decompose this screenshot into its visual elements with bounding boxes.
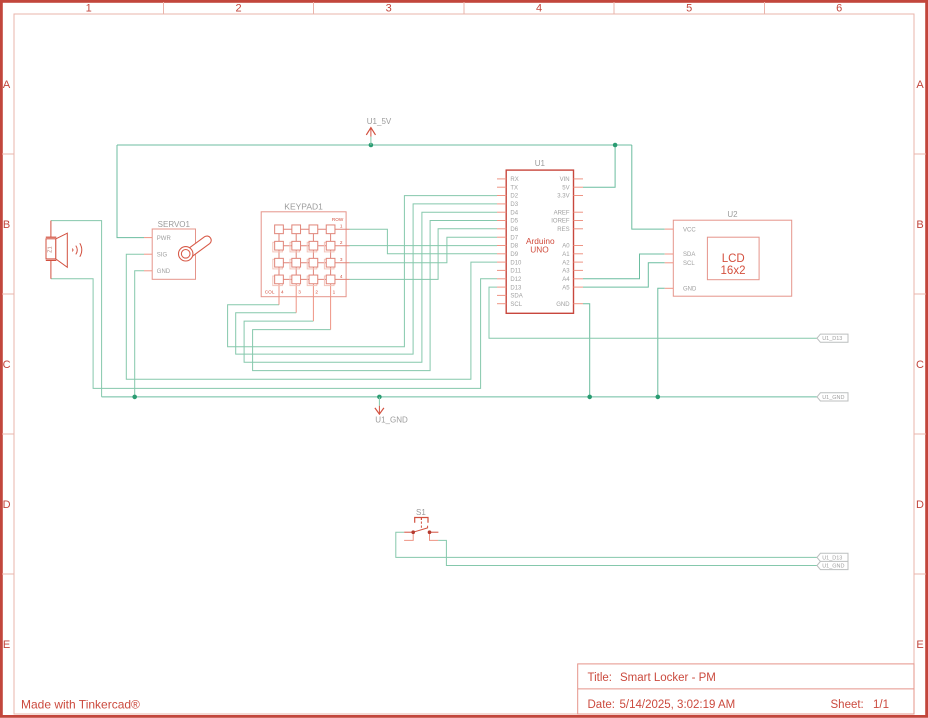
svg-text:2: 2 xyxy=(315,290,318,295)
net flag U1_D13 xyxy=(817,334,848,342)
wire keypad ROW2 to U1 D8 xyxy=(350,245,498,247)
svg-text:D5: D5 xyxy=(510,219,518,225)
wire servo SIG to U1 D10 xyxy=(126,254,497,379)
svg-text:4: 4 xyxy=(340,274,343,279)
svg-text:A: A xyxy=(916,79,924,91)
svg-text:RES: RES xyxy=(557,227,569,233)
svg-text:SCL: SCL xyxy=(510,302,522,308)
svg-text:6: 6 xyxy=(836,2,842,14)
svg-text:IOREF: IOREF xyxy=(551,219,570,225)
svg-text:D13: D13 xyxy=(510,285,522,291)
svg-text:GND: GND xyxy=(157,269,171,275)
wire U2 GND to rail xyxy=(658,288,665,397)
svg-text:GND: GND xyxy=(556,302,570,308)
svg-text:A5: A5 xyxy=(562,285,570,291)
power symbol U1_GND xyxy=(375,397,408,425)
wire keypad ROW1 to U1 D9 xyxy=(350,229,498,254)
svg-text:KEYPAD1: KEYPAD1 xyxy=(284,202,323,212)
title block xyxy=(578,664,914,714)
svg-text:1/1: 1/1 xyxy=(873,699,889,711)
svg-text:U1_GND: U1_GND xyxy=(822,564,844,570)
svg-text:E: E xyxy=(916,639,923,651)
junction dot xyxy=(377,395,382,400)
net flag U1_D13 xyxy=(817,553,848,561)
svg-text:3.3V: 3.3V xyxy=(557,194,569,200)
svg-text:COL: COL xyxy=(265,290,275,295)
svg-text:16x2: 16x2 xyxy=(721,265,746,277)
wire servo GND to rail xyxy=(135,271,144,397)
svg-text:1: 1 xyxy=(333,290,336,295)
svg-text:A0: A0 xyxy=(562,244,570,250)
svg-text:SDA: SDA xyxy=(683,252,695,258)
svg-text:3: 3 xyxy=(386,2,392,14)
svg-text:D3: D3 xyxy=(510,202,518,208)
svg-text:A4: A4 xyxy=(562,277,570,283)
svg-text:U1: U1 xyxy=(535,159,546,168)
svg-text:4: 4 xyxy=(281,290,284,295)
svg-text:U1_D13: U1_D13 xyxy=(822,336,842,342)
svg-text:Title:: Title: xyxy=(588,672,613,684)
svg-text:Smart Locker - PM: Smart Locker - PM xyxy=(620,672,716,684)
wire keypad COL1 to U1 D5 xyxy=(253,221,497,371)
svg-text:2: 2 xyxy=(235,2,241,14)
svg-text:ROW: ROW xyxy=(332,217,344,222)
wire U1 A4 to U2 SDA xyxy=(583,254,665,279)
wire S1 right pin to net flag U1_GND xyxy=(438,540,817,565)
svg-text:D10: D10 xyxy=(510,260,522,266)
wire 5V rail xyxy=(117,144,632,146)
svg-text:1: 1 xyxy=(86,2,92,14)
power symbol U1_5V xyxy=(366,117,392,145)
pushbutton S1 xyxy=(404,508,438,540)
junction dot xyxy=(132,395,137,400)
svg-text:B: B xyxy=(3,219,10,231)
svg-text:D: D xyxy=(3,499,11,511)
wire keypad ROW4 to U1 D6 xyxy=(350,229,498,280)
wire 5V rail to U2 VCC xyxy=(632,145,665,229)
svg-text:A1: A1 xyxy=(562,252,570,258)
servo SERVO1 xyxy=(144,220,211,279)
svg-text:U1_D13: U1_D13 xyxy=(822,555,842,561)
svg-text:E: E xyxy=(3,639,10,651)
junction dot xyxy=(656,395,661,400)
svg-text:D6: D6 xyxy=(510,227,518,233)
wire U1 D13 to net flag xyxy=(489,287,817,338)
junction dot xyxy=(369,143,374,148)
piezo speaker Z1 xyxy=(46,221,82,279)
svg-text:Made with Tinkercad®: Made with Tinkercad® xyxy=(21,698,140,712)
svg-text:Date:: Date: xyxy=(588,699,616,711)
svg-text:GND: GND xyxy=(683,287,697,293)
svg-text:SIG: SIG xyxy=(157,252,168,258)
wire GND rail xyxy=(102,396,817,398)
svg-text:U1_GND: U1_GND xyxy=(375,416,408,425)
net flag U1_GND xyxy=(817,561,848,569)
svg-text:VCC: VCC xyxy=(683,227,696,233)
svg-text:RX: RX xyxy=(510,177,518,183)
svg-text:A2: A2 xyxy=(562,260,570,266)
svg-text:1: 1 xyxy=(340,224,343,229)
svg-text:B: B xyxy=(916,219,923,231)
LCD U2 16x2 xyxy=(665,210,792,296)
svg-text:A: A xyxy=(3,79,11,91)
svg-text:PWR: PWR xyxy=(157,236,172,242)
svg-text:D7: D7 xyxy=(510,235,518,241)
junction dot xyxy=(613,143,618,148)
svg-text:VIN: VIN xyxy=(560,177,570,183)
wire keypad COL3 to U1 D3 xyxy=(236,204,497,354)
svg-text:D11: D11 xyxy=(510,269,521,275)
svg-text:D9: D9 xyxy=(510,252,518,258)
svg-text:LCD: LCD xyxy=(722,253,745,265)
wire U1 A5 to U2 SCL xyxy=(583,263,665,287)
svg-text:U1_GND: U1_GND xyxy=(822,395,844,401)
svg-text:C: C xyxy=(3,359,11,371)
svg-text:S1: S1 xyxy=(416,508,426,517)
svg-text:U1_5V: U1_5V xyxy=(367,117,392,126)
wire servo PWR to 5V rail xyxy=(117,145,144,238)
svg-text:5: 5 xyxy=(686,2,692,14)
microcontroller U1 Arduino UNO xyxy=(497,159,583,313)
keypad KEYPAD1 xyxy=(261,202,349,330)
wire keypad COL4 to U1 D2 xyxy=(228,196,497,347)
svg-text:SERVO1: SERVO1 xyxy=(158,220,191,229)
wire U1 5V pin branch xyxy=(583,145,615,187)
svg-text:AREF: AREF xyxy=(554,210,570,216)
net flag U1_GND xyxy=(817,393,848,401)
svg-text:SDA: SDA xyxy=(510,294,522,300)
svg-text:D12: D12 xyxy=(510,277,522,283)
svg-text:3: 3 xyxy=(298,290,301,295)
svg-text:Sheet:: Sheet: xyxy=(831,699,864,711)
svg-text:2: 2 xyxy=(340,240,343,245)
svg-text:SCL: SCL xyxy=(683,261,695,267)
svg-text:Z1: Z1 xyxy=(47,246,53,252)
wire speaker bottom pin to U1 D12 xyxy=(51,279,497,389)
svg-text:C: C xyxy=(916,359,924,371)
junction dot xyxy=(587,395,592,400)
svg-text:U2: U2 xyxy=(727,210,738,219)
svg-text:UNO: UNO xyxy=(530,245,549,255)
wire U1 GND pin to rail xyxy=(583,304,590,397)
svg-text:D8: D8 xyxy=(510,244,518,250)
svg-text:D: D xyxy=(916,499,924,511)
wire speaker top pin to GND rail xyxy=(51,221,102,397)
svg-text:5/14/2025, 3:02:19 AM: 5/14/2025, 3:02:19 AM xyxy=(620,699,736,711)
svg-text:TX: TX xyxy=(510,185,518,191)
wire keypad COL2 to U1 D4 xyxy=(244,212,497,362)
svg-text:3: 3 xyxy=(340,257,343,262)
svg-text:D4: D4 xyxy=(510,210,518,216)
wire S1 left pin to net flag U1_D13 xyxy=(396,532,817,557)
svg-text:A3: A3 xyxy=(562,269,570,275)
wire keypad ROW3 to U1 D7 xyxy=(350,237,498,263)
svg-text:4: 4 xyxy=(536,2,542,14)
svg-text:5V: 5V xyxy=(562,185,569,191)
svg-text:D2: D2 xyxy=(510,194,518,200)
